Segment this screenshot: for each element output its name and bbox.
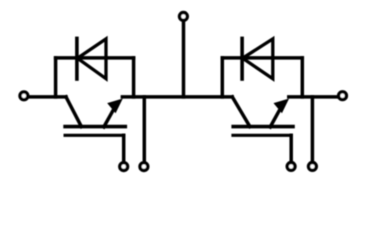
wire diode D1 loop right xyxy=(132,58,136,97)
node E1C2 mid bar wire xyxy=(122,95,232,99)
wire diode D2 loop right xyxy=(301,58,305,97)
IGBT Q2 gate plate xyxy=(233,134,291,137)
terminal E1 auxiliary emitter xyxy=(140,163,148,171)
wire E2 node to right terminal xyxy=(289,95,337,99)
IGBT Q1 emitter lead xyxy=(104,111,113,127)
wire gate G1 lead down xyxy=(122,135,126,161)
wire diode D1 loop left xyxy=(54,58,58,97)
diode D2 cathode bar xyxy=(240,38,244,79)
wire diode D1 loop top xyxy=(56,56,134,60)
IGBT Q1 emitter arrowhead xyxy=(107,99,123,114)
diode D1 cathode bar xyxy=(75,38,79,79)
IGBT Q2 emitter lead xyxy=(270,111,279,127)
IGBT Q1 collector lead xyxy=(66,97,81,127)
terminal E2 (right main emitter terminal) xyxy=(339,92,347,100)
wire E2 auxiliary lead down xyxy=(311,97,315,161)
terminal E2 auxiliary emitter xyxy=(309,163,317,171)
IGBT Q1 gate plate xyxy=(65,134,124,137)
terminal G1 (gate 1) xyxy=(120,163,128,171)
wire diode D2 loop left xyxy=(221,58,225,97)
terminal C1 (left main collector terminal) xyxy=(20,92,28,100)
IGBT Q1 body bar xyxy=(65,125,125,129)
wire top terminal down to mid bar xyxy=(182,21,186,97)
diode D2 triangle xyxy=(243,39,273,79)
diode D1 triangle xyxy=(77,39,106,79)
wire gate G2 lead down xyxy=(289,135,293,161)
wire C1 terminal to collector node xyxy=(28,95,66,99)
terminal G2 (gate 2) xyxy=(287,163,295,171)
IGBT Q2 body bar xyxy=(233,125,293,129)
IGBT Q2 collector lead xyxy=(232,97,250,127)
terminal E1C2 (top main terminal) xyxy=(180,13,188,21)
wire E1 auxiliary lead down xyxy=(143,97,147,162)
wire diode D2 loop top xyxy=(222,56,302,60)
IGBT Q2 emitter arrowhead xyxy=(274,99,290,114)
